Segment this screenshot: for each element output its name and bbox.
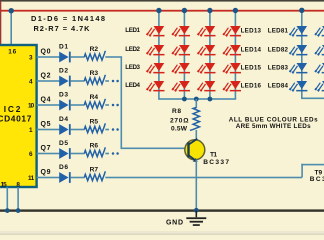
- svg-text:3: 3: [29, 54, 33, 61]
- top border: [0, 0, 324, 2]
- junction dot: matrix bottom rail: [208, 97, 213, 102]
- svg-text:4: 4: [29, 78, 33, 85]
- continuation dots row R4: [112, 104, 115, 107]
- svg-text:R8: R8: [172, 108, 181, 115]
- LED2 red: [147, 45, 165, 55]
- svg-text:D1: D1: [59, 44, 68, 51]
- wire: IC pin to diode D6: [37, 177, 60, 179]
- resistor R2 4.7K: [84, 46, 105, 60]
- LED4 red: [147, 81, 165, 91]
- resistor R8 270ohm 0.5W: [170, 108, 200, 133]
- wire: blue LED column: [301, 11, 303, 99]
- svg-text:Q4: Q4: [41, 97, 51, 104]
- resistor R3 4.7K: [84, 70, 105, 84]
- svg-text:R2-R7 = 4.7K: R2-R7 = 4.7K: [34, 24, 91, 33]
- LED16 red: [223, 81, 241, 91]
- ground symbol: [186, 211, 206, 226]
- svg-text:T1: T1: [210, 151, 217, 158]
- wire: rail to IC pin 16: [10, 11, 12, 45]
- wire: R8 to T1 collector: [196, 130, 198, 141]
- svg-text:ARE 5mm WHITE LEDs: ARE 5mm WHITE LEDs: [236, 123, 311, 130]
- svg-text:LED16: LED16: [241, 82, 262, 89]
- left border: [0, 1, 1, 45]
- junction dot: matrix bottom rail: [182, 97, 187, 102]
- wire: LED column 1: [158, 11, 160, 99]
- wire: to off-page transistor: [301, 164, 324, 166]
- LED11 red: [198, 63, 216, 73]
- svg-text:R5: R5: [90, 119, 99, 126]
- wire: rise to next stage: [301, 164, 303, 178]
- wire: IC pin to diode D4: [37, 129, 60, 131]
- bottom shadow: [0, 231, 324, 235]
- svg-text:LED3: LED3: [125, 64, 140, 71]
- wire: IC pin to diode D3: [37, 104, 60, 106]
- svg-text:LED13: LED13: [241, 27, 262, 34]
- wire: D2 to R3: [71, 80, 85, 82]
- wire: T1 emitter to ground: [196, 160, 198, 211]
- wire: R7 out long run: [105, 177, 302, 179]
- wire: R6 out stub: [105, 153, 109, 155]
- wire: R2 out to bus: [105, 56, 122, 58]
- continuation dots row R5: [112, 128, 115, 131]
- svg-text:LED4: LED4: [125, 82, 140, 89]
- LED84 blue: [290, 81, 308, 91]
- LED83 blue: [290, 63, 308, 73]
- junction dot: blue column at +V rail: [299, 8, 304, 13]
- LED15 red: [223, 63, 241, 73]
- diode D2 1N4148: [59, 68, 71, 87]
- svg-text:D4: D4: [59, 116, 68, 123]
- diode D5 1N4148: [59, 140, 71, 159]
- junction dot: pin 8 ground: [16, 208, 21, 213]
- resistor R6 4.7K: [84, 143, 105, 157]
- wire: R5 out stub: [105, 129, 109, 131]
- LED81 blue: [290, 26, 308, 36]
- junction dot: column 4 at +V rail: [233, 8, 238, 13]
- wire: R3 out stub: [105, 80, 109, 82]
- LED91 blue cut at edge: [315, 26, 324, 36]
- LED94 blue cut at edge: [315, 81, 324, 91]
- svg-text:LED83: LED83: [268, 64, 289, 71]
- svg-text:D3: D3: [59, 92, 68, 99]
- LED13 red: [223, 26, 241, 36]
- junction dot: supply to IC: [9, 8, 14, 13]
- wire: bus to T1 base horizontal: [121, 148, 189, 150]
- LED12 red: [198, 81, 216, 91]
- junction dot: matrix bottom rail: [194, 97, 199, 102]
- wire: LED column 2: [184, 11, 186, 99]
- svg-text:Q7: Q7: [41, 145, 51, 152]
- svg-text:R4: R4: [90, 94, 99, 101]
- svg-text:11: 11: [28, 175, 35, 182]
- svg-text:R6: R6: [90, 143, 99, 150]
- svg-text:1: 1: [29, 127, 33, 134]
- svg-text:D5: D5: [59, 140, 68, 147]
- wire: IC pin 8 to ground: [17, 187, 19, 211]
- wire: D6 to R7: [71, 177, 85, 179]
- LED82 blue: [290, 45, 308, 55]
- svg-text:BC337: BC337: [310, 176, 324, 183]
- svg-text:16: 16: [8, 48, 16, 55]
- diode D1 1N4148: [59, 44, 71, 63]
- LED14 red: [223, 45, 241, 55]
- resistor R7 4.7K: [84, 167, 105, 181]
- resistor R4 4.7K: [84, 94, 105, 108]
- diode D4 1N4148: [59, 116, 71, 135]
- LED1 red: [147, 26, 165, 36]
- IC U2 CD4017 decade counter: [0, 45, 37, 187]
- LED93 blue cut at edge: [315, 63, 324, 73]
- svg-text:BC337: BC337: [203, 159, 229, 166]
- wire: IC pin 15 to ground: [7, 187, 9, 211]
- matrix bottom rail: [158, 98, 236, 100]
- LED8 red: [172, 81, 190, 91]
- svg-text:D2: D2: [59, 68, 68, 75]
- continuation dots row R6: [112, 152, 115, 155]
- wire: IC pin to diode D2: [37, 80, 60, 82]
- LED9 red: [198, 26, 216, 36]
- +V supply rail: [0, 10, 324, 12]
- svg-text:CD4017: CD4017: [0, 113, 32, 123]
- junction dot: emitter ground: [194, 208, 199, 213]
- wire: bus to T1 base vertical: [121, 57, 123, 148]
- LED10 red: [198, 45, 216, 55]
- junction dot: column 1 at +V rail: [156, 8, 161, 13]
- svg-text:LED82: LED82: [268, 46, 289, 53]
- junction dot: pin 15 ground: [5, 208, 10, 213]
- transistor T1 BC337: [185, 139, 230, 166]
- svg-text:Q5: Q5: [41, 121, 51, 128]
- wire: blue column bottom to edge: [301, 98, 324, 100]
- svg-text:LED15: LED15: [241, 64, 262, 71]
- svg-text:R2: R2: [90, 46, 99, 53]
- svg-text:6: 6: [29, 151, 33, 158]
- LED5 red: [172, 26, 190, 36]
- svg-text:LED84: LED84: [268, 82, 289, 89]
- continuation dots row R3: [112, 80, 115, 83]
- resistor R5 4.7K: [84, 119, 105, 133]
- svg-text:D6: D6: [59, 164, 68, 171]
- ground rail: [0, 209, 324, 211]
- svg-text:LED2: LED2: [125, 46, 140, 53]
- wire: D1 to R2: [71, 56, 85, 58]
- wire: matrix rail to R8: [196, 99, 198, 108]
- wire: D4 to R5: [71, 129, 85, 131]
- junction dot: column 2 at +V rail: [182, 8, 187, 13]
- svg-text:R3: R3: [90, 70, 99, 77]
- svg-text:R7: R7: [90, 167, 99, 174]
- LED92 blue cut at edge: [315, 45, 324, 55]
- svg-text:Q9: Q9: [41, 169, 51, 176]
- LED6 red: [172, 45, 190, 55]
- svg-text:10: 10: [28, 102, 35, 109]
- svg-text:GND: GND: [166, 219, 183, 226]
- svg-text:15: 15: [1, 181, 8, 188]
- wire: LED column 3: [209, 11, 211, 99]
- wire: D5 to R6: [71, 153, 85, 155]
- diode D6 1N4148: [59, 164, 71, 183]
- svg-text:Q2: Q2: [41, 73, 51, 80]
- wire: R4 out stub: [105, 104, 109, 106]
- svg-text:LED81: LED81: [268, 27, 289, 34]
- svg-text:270Ω: 270Ω: [170, 118, 189, 125]
- svg-text:Q0: Q0: [41, 49, 51, 56]
- diode D3 1N4148: [59, 92, 71, 111]
- junction dot: column 3 at +V rail: [207, 8, 212, 13]
- LED3 red: [147, 63, 165, 73]
- wire: D3 to R4: [71, 104, 85, 106]
- svg-text:0.5W: 0.5W: [171, 126, 188, 133]
- wire: LED column 4: [235, 11, 237, 99]
- wire: IC pin to diode D1: [37, 56, 60, 58]
- LED7 red: [172, 63, 190, 73]
- svg-text:LED1: LED1: [125, 27, 140, 34]
- wire: IC pin to diode D5: [37, 153, 60, 155]
- svg-text:LED14: LED14: [241, 46, 262, 53]
